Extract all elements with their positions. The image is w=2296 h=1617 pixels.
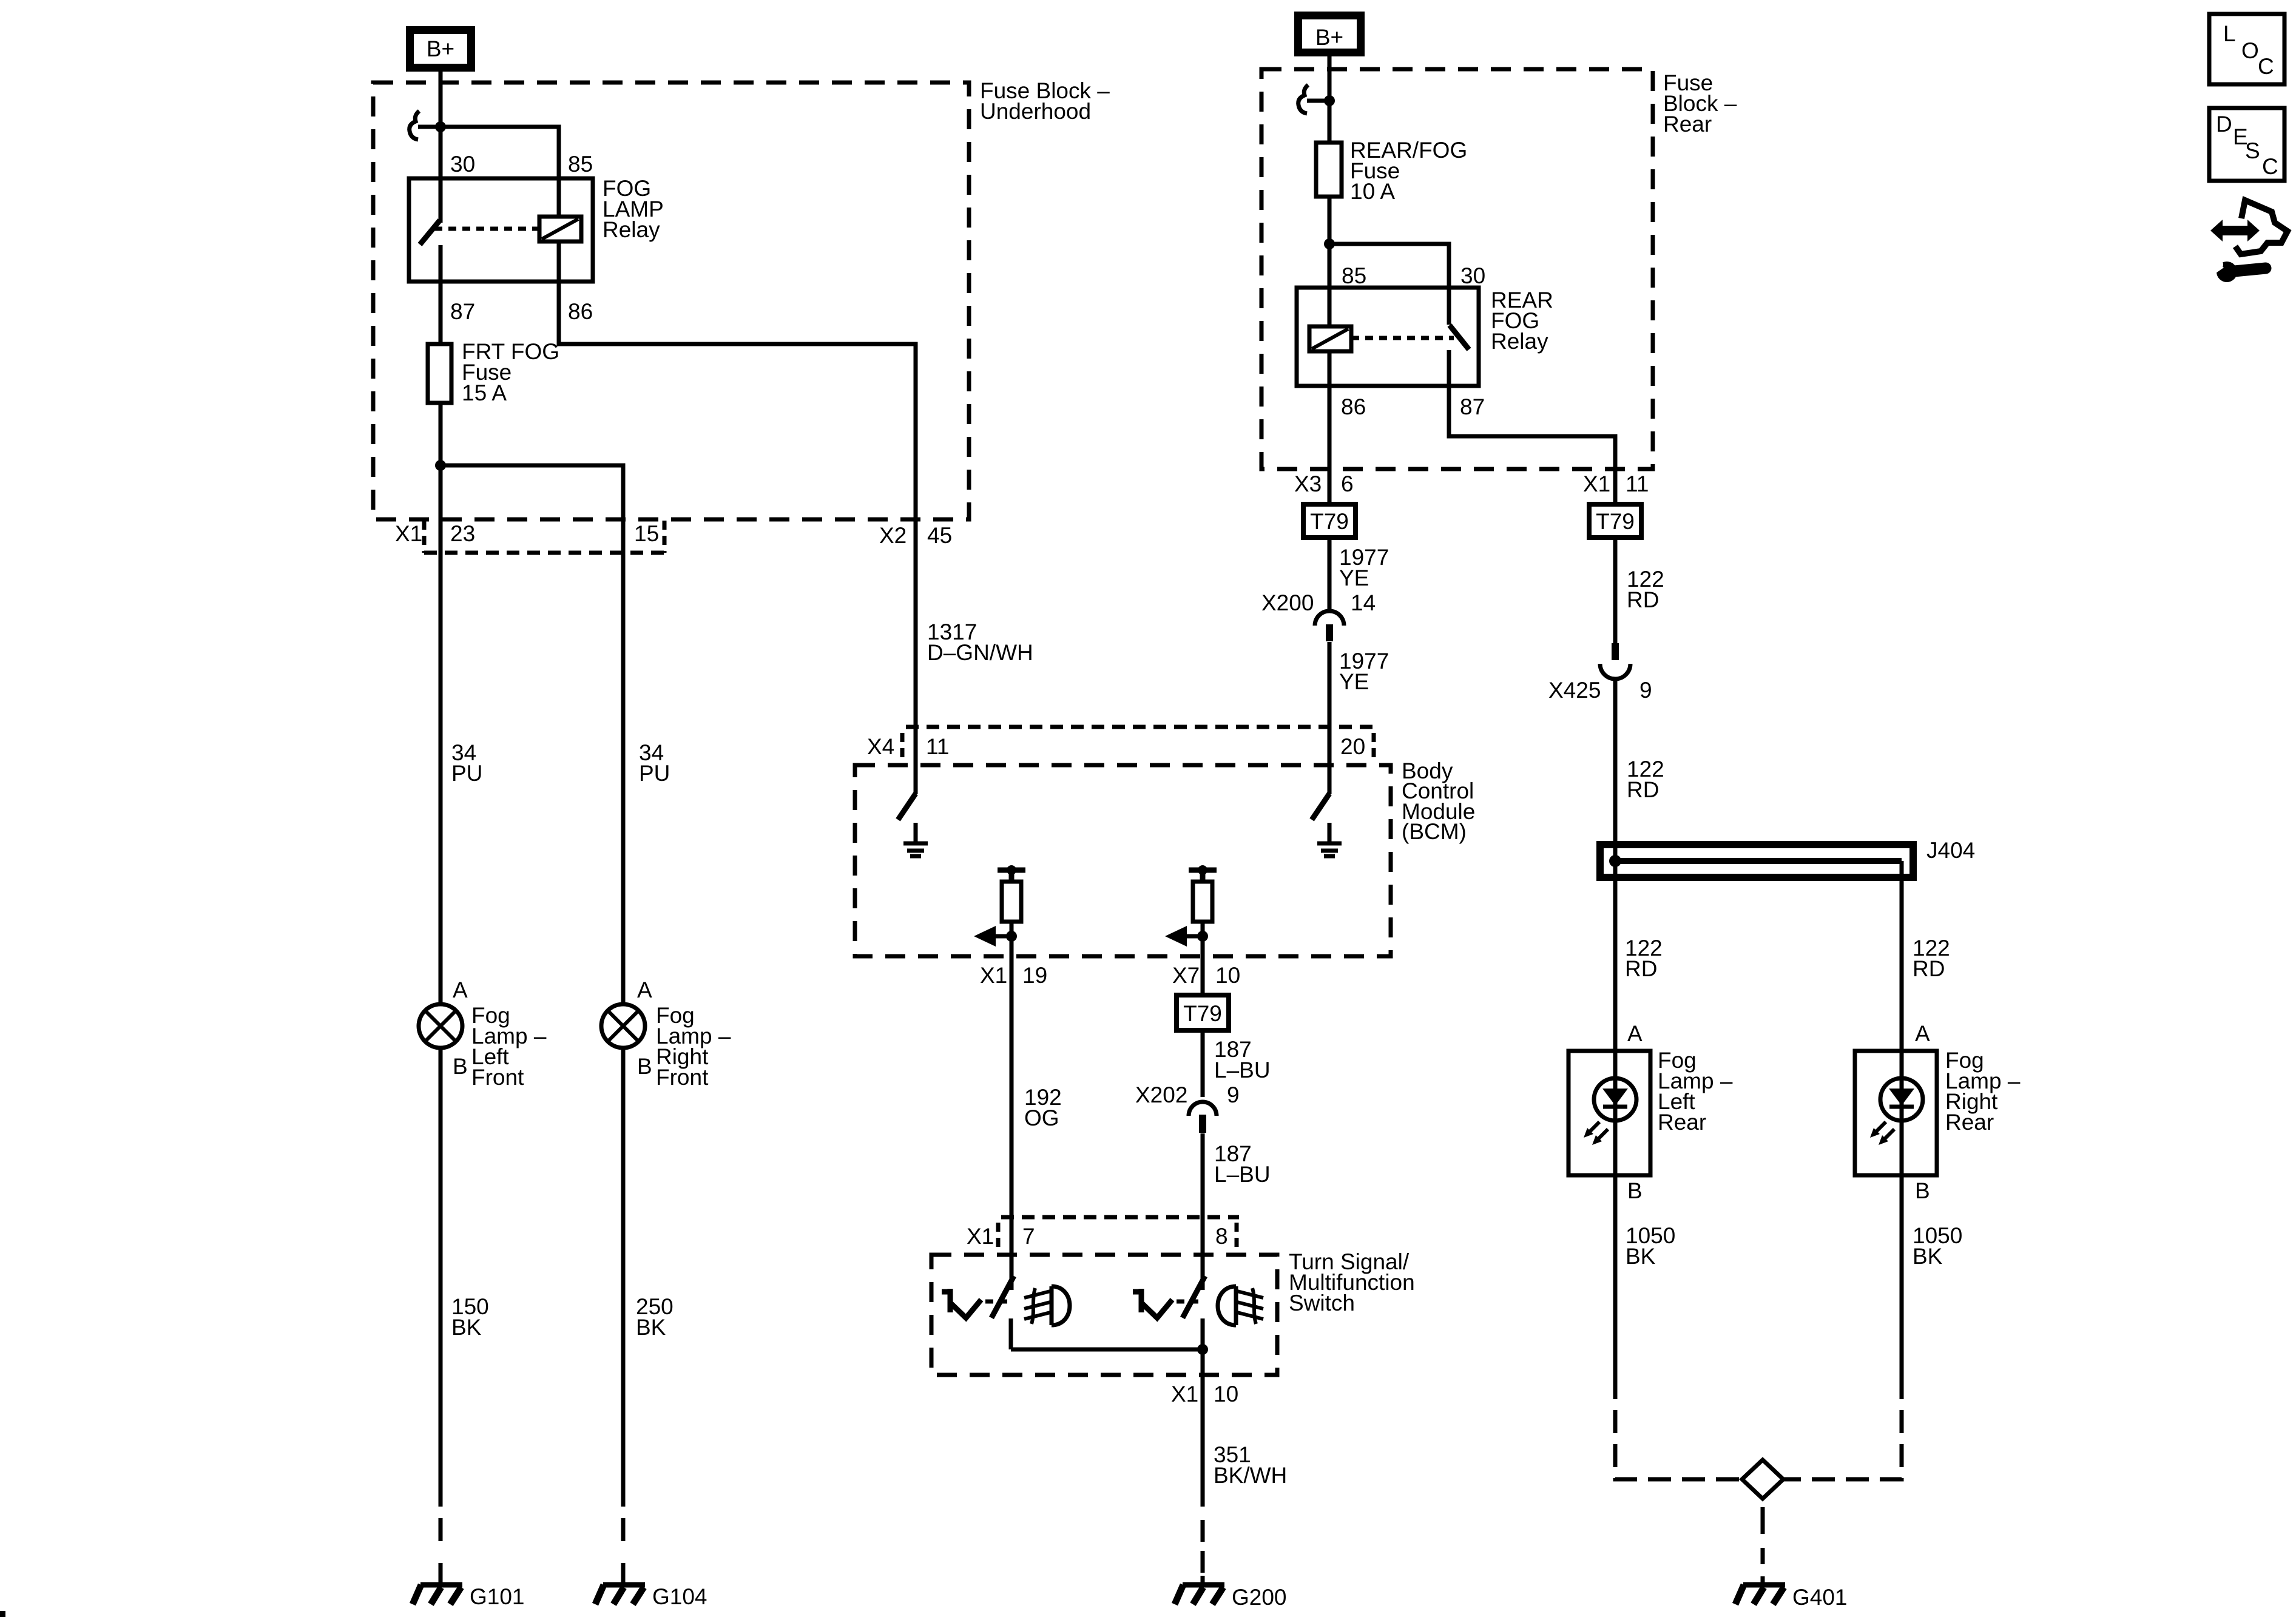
wire X202 to switch pin 8 xyxy=(1201,1133,1205,1290)
svg-text:BK: BK xyxy=(636,1315,666,1340)
svg-text:A: A xyxy=(453,977,468,1002)
wire branch to relay pin 30 xyxy=(1329,244,1449,288)
svg-text:X2: X2 xyxy=(879,523,907,548)
wire 34 PU right label xyxy=(639,740,670,786)
wire switch to X1-10 xyxy=(1201,1349,1205,1507)
wire right lamp B to ground xyxy=(621,1048,626,1507)
svg-text:30: 30 xyxy=(1460,263,1485,288)
lamp E3 label xyxy=(1658,1048,1733,1135)
pass-through T79 (X7-10) xyxy=(1177,995,1229,1030)
relay coil link dashed xyxy=(434,227,539,231)
wire relay 87 to X1-11 xyxy=(1449,386,1615,504)
svg-text:7: 7 xyxy=(1022,1224,1035,1249)
svg-text:86: 86 xyxy=(568,299,593,324)
node splice at B+ feed xyxy=(435,121,446,132)
lamp E4 label xyxy=(1945,1048,2021,1135)
BCM label xyxy=(1402,758,1475,844)
wire 1050 BK left label xyxy=(1626,1223,1675,1269)
ground G200 xyxy=(1175,1585,1224,1604)
relay K2 switch pin 87 stub xyxy=(1447,350,1451,386)
svg-text:15: 15 xyxy=(634,521,659,546)
svg-text:B: B xyxy=(637,1054,652,1079)
wire relay 87 to fuse xyxy=(439,282,443,344)
svg-text:YE: YE xyxy=(1339,669,1369,694)
svg-text:B+: B+ xyxy=(1315,25,1343,50)
relay switch blade xyxy=(420,220,440,245)
wire dashed continuation right xyxy=(621,1518,626,1583)
wire B+ to relay pin 30 xyxy=(439,68,443,178)
wire dashed diamond to G401 xyxy=(1761,1507,1765,1534)
switch pin row separator left xyxy=(996,1223,1001,1249)
wire hook tick rear xyxy=(1307,99,1329,103)
wire BCM X7-10 output xyxy=(1201,936,1205,997)
switch S1a lower stub xyxy=(1009,1318,1013,1349)
wire X425 to J404 xyxy=(1613,681,1618,1051)
relay K2 switch pin 30 stub xyxy=(1447,288,1451,325)
connector X1 row sub-box bottom xyxy=(424,551,664,555)
wire switch common xyxy=(1011,1348,1203,1352)
wire left lamp B to ground xyxy=(439,1048,443,1507)
ground G101 xyxy=(413,1585,462,1604)
lamp E2 Fog Lamp Right Front xyxy=(601,1004,645,1048)
relay K1 FOG LAMP Relay box xyxy=(409,178,593,282)
svg-text:J404: J404 xyxy=(1926,838,1975,863)
battery feed B+ (right) xyxy=(1298,16,1361,53)
ground G401 xyxy=(1735,1585,1785,1604)
svg-text:C: C xyxy=(2262,154,2278,179)
relay switch pin 30 stub xyxy=(439,178,443,223)
turn signal multifunction switch dashed box xyxy=(931,1255,1277,1375)
inline connector X425-9 xyxy=(1600,643,1630,679)
svg-text:PU: PU xyxy=(639,761,670,786)
BCM driver resistor right xyxy=(1189,865,1217,936)
node splice below rear fuse xyxy=(1324,238,1335,249)
wire dashed left to splice diamond xyxy=(1615,1410,1744,1479)
svg-text:T79: T79 xyxy=(1596,509,1635,534)
BCM pin row separator left xyxy=(900,733,905,760)
svg-text:RD: RD xyxy=(1625,956,1657,981)
svg-text:G401: G401 xyxy=(1792,1585,1848,1610)
switch S1b lever link dashed xyxy=(1177,1300,1200,1304)
svg-text:11: 11 xyxy=(1626,471,1649,496)
wire dashed continuation left xyxy=(439,1518,443,1583)
svg-text:30: 30 xyxy=(450,152,475,177)
svg-text:85: 85 xyxy=(568,152,593,177)
svg-text:L–BU: L–BU xyxy=(1214,1058,1271,1082)
relay K2 coil xyxy=(1309,326,1351,386)
node switch common junction xyxy=(1197,1344,1208,1355)
svg-text:(BCM): (BCM) xyxy=(1402,819,1467,844)
wire relay 86 to X3-6 xyxy=(1328,386,1332,504)
svg-text:BK: BK xyxy=(1626,1244,1656,1269)
fuse F1 label xyxy=(462,339,559,405)
relay coil xyxy=(539,178,581,282)
svg-text:Relay: Relay xyxy=(1491,329,1548,354)
svg-text:B: B xyxy=(1627,1178,1643,1203)
BCM pin row separator right xyxy=(1372,733,1376,760)
BCM input switch pin-20 blade xyxy=(1312,794,1329,820)
svg-text:G104: G104 xyxy=(652,1584,707,1609)
svg-text:Rear: Rear xyxy=(1663,112,1712,137)
svg-text:Front: Front xyxy=(656,1065,709,1090)
svg-text:Switch: Switch xyxy=(1289,1291,1355,1315)
relay K2 coil link dashed xyxy=(1351,336,1454,340)
relay switch pin 87 stub xyxy=(439,245,443,282)
svg-text:A: A xyxy=(637,977,652,1002)
svg-text:C: C xyxy=(2258,54,2274,79)
BCM driver resistor left xyxy=(998,865,1025,936)
svg-text:X200: X200 xyxy=(1261,590,1314,615)
svg-text:20: 20 xyxy=(1340,734,1365,759)
inline connector X202-9 xyxy=(1189,1102,1217,1133)
svg-text:14: 14 xyxy=(1351,590,1376,615)
wire X200 to BCM pin 20 xyxy=(1328,642,1332,794)
wire T79 to X200 xyxy=(1328,538,1332,609)
wire 1977 YE upper label xyxy=(1339,545,1389,590)
svg-text:X1: X1 xyxy=(980,963,1007,988)
relay K1 label xyxy=(603,176,664,242)
svg-text:T79: T79 xyxy=(1310,509,1349,534)
fuse block rear dashed box xyxy=(1261,69,1653,469)
splice pack J404 xyxy=(1600,845,1913,877)
lamp E2 label xyxy=(656,1003,731,1090)
svg-text:BK: BK xyxy=(1913,1244,1943,1269)
lamp E3 Fog Lamp Left Rear box xyxy=(1568,1051,1650,1175)
wire right rear lamp B down xyxy=(1900,1175,1904,1399)
wire 150 BK label xyxy=(451,1294,489,1340)
wire hook tick xyxy=(418,125,441,129)
wire BCM X1-19 output xyxy=(1010,936,1014,1290)
BCM sense arrow right xyxy=(1165,926,1208,947)
svg-text:Rear: Rear xyxy=(1945,1110,1994,1135)
svg-text:BK: BK xyxy=(451,1315,482,1340)
relay K2 switch blade xyxy=(1450,325,1469,349)
fusible element hook rear xyxy=(1298,85,1308,113)
svg-text:X1: X1 xyxy=(1583,471,1610,496)
wire 187 L-BU upper label xyxy=(1214,1037,1271,1082)
svg-text:X425: X425 xyxy=(1548,678,1601,703)
svg-text:L–BU: L–BU xyxy=(1214,1162,1271,1187)
rear fog icon xyxy=(1218,1286,1263,1325)
splice diamond xyxy=(1742,1460,1783,1499)
wire 351 BK/WH label xyxy=(1214,1442,1287,1488)
wire relay 86 to X2 pin 45 xyxy=(559,282,916,519)
svg-text:87: 87 xyxy=(450,299,475,324)
svg-text:S: S xyxy=(2245,138,2260,163)
svg-text:11: 11 xyxy=(926,734,949,759)
svg-text:8: 8 xyxy=(1215,1224,1228,1249)
switch S1a lever icon xyxy=(942,1289,981,1318)
wire branch to pin 15 xyxy=(441,465,623,1004)
svg-text:B: B xyxy=(453,1054,468,1079)
svg-text:G101: G101 xyxy=(470,1584,525,1609)
svg-text:BK/WH: BK/WH xyxy=(1214,1463,1287,1488)
BCM internal ground left xyxy=(903,823,928,856)
wire 1050 BK right label xyxy=(1913,1223,1962,1269)
wire 122 RD right lower label xyxy=(1913,936,1950,981)
wire X2 45 down to BCM X4 11 xyxy=(914,519,918,794)
fuse F2 label xyxy=(1350,138,1467,204)
fuse block rear label xyxy=(1663,70,1737,137)
svg-text:86: 86 xyxy=(1341,394,1366,419)
svg-text:A: A xyxy=(1627,1021,1643,1046)
svg-text:T79: T79 xyxy=(1183,1001,1222,1026)
LOC legend box xyxy=(2209,14,2284,84)
svg-text:15 A: 15 A xyxy=(462,380,507,405)
page corner mark xyxy=(0,1611,5,1617)
svg-text:9: 9 xyxy=(1227,1082,1240,1107)
svg-text:10: 10 xyxy=(1215,963,1240,988)
svg-text:D: D xyxy=(2216,112,2232,137)
service adjust icon xyxy=(2210,200,2288,282)
svg-text:85: 85 xyxy=(1342,263,1366,288)
switch S1b lever icon xyxy=(1133,1289,1172,1318)
wire 1977 YE lower label xyxy=(1339,649,1389,694)
wire T79 to X425 xyxy=(1613,538,1618,644)
svg-text:RD: RD xyxy=(1627,777,1659,802)
relay K2 REAR FOG Relay box xyxy=(1297,288,1479,386)
svg-text:A: A xyxy=(1915,1021,1930,1046)
switch S1b lower stub xyxy=(1201,1318,1205,1349)
connector X1 separator right xyxy=(663,521,667,553)
wire 187 L-BU lower label xyxy=(1214,1141,1271,1187)
svg-text:Rear: Rear xyxy=(1658,1110,1706,1135)
wire to relay coil pin 85 xyxy=(441,127,559,178)
svg-text:X202: X202 xyxy=(1135,1082,1187,1107)
switch S1b blade xyxy=(1183,1276,1205,1318)
wire left rear lamp B down xyxy=(1613,1175,1618,1399)
relay K2 label xyxy=(1491,288,1553,354)
wire pin 23 down to left lamp xyxy=(439,465,443,1004)
fuse F1 FRT FOG 15A xyxy=(428,344,451,403)
svg-text:B+: B+ xyxy=(427,36,454,61)
wire T79 to X202 xyxy=(1201,1030,1205,1097)
wire 1317 D-GN/WH label xyxy=(927,619,1033,665)
BCM dashed box xyxy=(855,765,1391,956)
svg-text:87: 87 xyxy=(1460,394,1485,419)
pass-through T79 (X1-11) xyxy=(1589,504,1641,538)
wire J404 to right rear lamp xyxy=(1900,861,1904,1051)
BCM pin row top dotted xyxy=(906,725,1374,729)
svg-text:45: 45 xyxy=(927,523,952,548)
svg-text:X4: X4 xyxy=(867,734,894,759)
svg-text:RD: RD xyxy=(1627,587,1659,612)
BCM sense arrow left xyxy=(974,926,1017,947)
fuse block underhood dashed box xyxy=(373,83,969,519)
lamp E1 label xyxy=(471,1003,547,1090)
svg-text:RD: RD xyxy=(1913,956,1945,981)
wire 122 RD mid label xyxy=(1627,757,1664,802)
wire dashed continuation to G200 xyxy=(1201,1520,1205,1583)
svg-text:X7: X7 xyxy=(1172,963,1200,988)
node splice below fuse xyxy=(435,460,446,471)
svg-text:Front: Front xyxy=(471,1065,524,1090)
svg-text:L: L xyxy=(2223,21,2236,46)
switch S1a blade xyxy=(991,1276,1014,1318)
wire fuse to splice xyxy=(439,403,443,465)
BCM input switch X4-11 blade xyxy=(898,794,916,820)
svg-text:YE: YE xyxy=(1339,565,1369,590)
BCM internal ground right xyxy=(1317,823,1342,856)
svg-text:OG: OG xyxy=(1024,1106,1059,1130)
wire 122 RD upper label xyxy=(1627,567,1664,612)
front fog icon xyxy=(1024,1286,1070,1325)
svg-text:G200: G200 xyxy=(1232,1585,1287,1610)
switch S1a lever link dashed xyxy=(985,1300,1008,1304)
svg-text:23: 23 xyxy=(450,521,475,546)
wire 122 RD left lower label xyxy=(1625,936,1663,981)
wire 192 OG label xyxy=(1024,1085,1062,1130)
svg-text:O: O xyxy=(2241,38,2259,63)
wire 34 PU left label xyxy=(451,740,482,786)
pass-through T79 (X3-6) xyxy=(1303,504,1356,538)
lamp E1 Fog Lamp Left Front xyxy=(419,1004,462,1048)
svg-text:D–GN/WH: D–GN/WH xyxy=(927,640,1033,665)
svg-text:6: 6 xyxy=(1341,471,1354,496)
battery feed B+ (left) xyxy=(410,30,471,68)
svg-text:PU: PU xyxy=(451,761,482,786)
svg-text:19: 19 xyxy=(1022,963,1047,988)
svg-text:B: B xyxy=(1915,1178,1930,1203)
fusible element hook xyxy=(410,111,419,140)
wire 250 BK label xyxy=(636,1294,674,1340)
DESC legend box xyxy=(2209,108,2284,181)
svg-text:X1: X1 xyxy=(395,521,422,546)
node splice at rear B+ feed xyxy=(1324,95,1335,106)
svg-text:10: 10 xyxy=(1214,1382,1238,1406)
svg-text:X1: X1 xyxy=(1171,1382,1198,1406)
svg-text:Underhood: Underhood xyxy=(980,99,1091,124)
switch pin row top dotted xyxy=(1001,1215,1239,1220)
fuse block underhood label xyxy=(980,78,1110,124)
connector X1 separator left xyxy=(422,521,427,553)
wire fuse to splice xyxy=(1328,197,1332,326)
lamp E4 Fog Lamp Right Rear box xyxy=(1855,1051,1937,1175)
svg-text:9: 9 xyxy=(1639,678,1652,703)
inline connector X200-14 xyxy=(1315,611,1344,641)
wire dashed right to splice diamond xyxy=(1783,1410,1902,1479)
switch pin row separator right xyxy=(1235,1223,1239,1249)
svg-text:X3: X3 xyxy=(1294,471,1322,496)
svg-text:X1: X1 xyxy=(967,1224,994,1249)
switch S1 label xyxy=(1289,1249,1415,1315)
svg-text:Relay: Relay xyxy=(603,217,660,242)
svg-text:10 A: 10 A xyxy=(1350,179,1395,204)
wire B+ to fuse xyxy=(1328,52,1332,143)
fuse F2 REAR/FOG 10A xyxy=(1316,143,1342,197)
ground G104 xyxy=(595,1585,645,1604)
